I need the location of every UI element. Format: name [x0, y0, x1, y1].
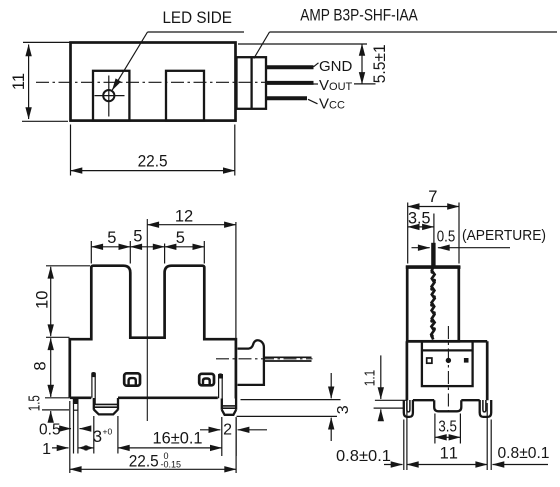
dimension 1.1 upper reference [375, 399, 407, 401]
front view left boss outer [124, 373, 140, 385]
dimension 3 lower arrow [330, 418, 332, 441]
dimension 11 line [28, 45, 30, 120]
dimension 11 top extension [23, 41, 71, 43]
dimension 7 line [408, 206, 459, 208]
front view body outline [70, 266, 236, 399]
front view connector bump [238, 340, 264, 385]
dimension 7 right extension [458, 203, 460, 264]
top view center line [36, 81, 267, 83]
dimension 2 right arrow [238, 429, 267, 431]
dimension 0.5 aperture right arrow [412, 247, 430, 249]
side view center line [447, 326, 449, 412]
side view right foot outer [480, 400, 492, 417]
top view LED circle [103, 90, 114, 101]
dimension 0.5 left arrow [80, 428, 90, 430]
dimension 2 left arrow [200, 429, 220, 431]
dimension 3+0 left extension [93, 416, 95, 454]
front view vertical center line [146, 219, 148, 421]
dimension 10 top extension [46, 265, 90, 267]
side view aperture squiggle [431, 267, 434, 340]
dimension 1.1 lower reference [374, 407, 405, 409]
wire GND tick [314, 63, 319, 67]
dimension 22.5 front left extension [69, 401, 71, 473]
svg-text:12: 12 [175, 208, 193, 226]
svg-text:0.5: 0.5 [39, 422, 61, 439]
LED SIDE leader [112, 32, 147, 90]
dimension 3 upper arrow [330, 373, 332, 398]
dimension 3.5 top line [408, 226, 434, 228]
front view bottom edge left segment [70, 396, 92, 399]
front view right boss outer [199, 374, 214, 386]
front view right snap prong [219, 374, 223, 406]
dimension 3+0 right extension [117, 416, 119, 454]
svg-text:0.8±0.1: 0.8±0.1 [336, 448, 391, 465]
front view wire bottom line [264, 360, 312, 362]
wire VOUT tick [313, 83, 318, 85]
svg-text:22.5: 22.5 [129, 452, 159, 470]
side view aperture squiggle knots [430, 270, 436, 338]
AMP leader [254, 32, 270, 59]
dimension 3 lower reference line [237, 415, 338, 417]
front view left foot left wall [93, 398, 95, 410]
wire VCC tick [308, 99, 318, 104]
side view left foot slot [407, 400, 410, 412]
front view left foot band 1 [94, 403, 118, 405]
svg-text:10: 10 [34, 291, 52, 309]
front view right foot band 1 [222, 405, 236, 407]
dimension 11 left base extension [406, 403, 408, 470]
front view left pin right line [77, 398, 79, 454]
svg-text:-0.15: -0.15 [161, 459, 182, 469]
front view left pin left line [73, 398, 75, 454]
svg-text:8: 8 [32, 361, 50, 370]
side view inner box [422, 341, 473, 386]
dimension 5 line left [91, 246, 130, 248]
AMP underline [270, 31, 558, 33]
dimension 5 extension a [90, 241, 92, 264]
front view right snap prong cap [218, 374, 223, 379]
top view LED crosshair horizontal [95, 95, 125, 97]
dimension 22.5 line [71, 170, 235, 172]
top view LED crosshair vertical [108, 76, 110, 117]
svg-text:3.5: 3.5 [438, 419, 457, 436]
side view right foot slot [483, 400, 486, 412]
front view right foot right wall [235, 399, 237, 410]
side view base bottom left segment [413, 399, 434, 401]
svg-text:1.5: 1.5 [27, 395, 44, 411]
VOUT reference line [354, 83, 376, 85]
svg-text:11: 11 [10, 73, 28, 90]
side view pin dot center [446, 358, 451, 363]
dimension 10 middle extension [46, 336, 70, 338]
front view left snap prong cap [91, 373, 95, 378]
dimension 16±0.1 line [118, 447, 222, 449]
dimension 3.5 bottom right extension [459, 414, 461, 444]
front view bottom edge middle segment [118, 396, 218, 399]
dimension 2 left extension [221, 417, 223, 456]
svg-text:5: 5 [133, 228, 142, 246]
dimension 1.5 lower arrow [50, 411, 52, 421]
svg-text:5: 5 [176, 229, 185, 247]
front view left pin dark body [73, 398, 78, 404]
dimension 22.5 left extension [70, 125, 72, 176]
dimension 7 left extension [407, 203, 409, 264]
dimension 5 extension d [203, 241, 205, 264]
side view pin square right [464, 358, 469, 363]
wire GND [266, 65, 314, 69]
side view inner box lid line [422, 349, 473, 351]
svg-text:5.5±1: 5.5±1 [371, 44, 389, 83]
front view left snap prong [92, 373, 95, 405]
top view LED window (left) [93, 71, 129, 121]
wire VOUT [266, 81, 314, 85]
front view left foot right wall [117, 398, 119, 410]
dimension 5.5±1 extension line [238, 43, 367, 45]
front view left foot band 2 [95, 406, 118, 408]
dimension 11 left foot extension [403, 420, 405, 471]
svg-text:5: 5 [107, 229, 116, 247]
dimension 1.5 lower extension [42, 409, 69, 411]
front view right boss inner [203, 379, 210, 385]
dimension 12 extension [235, 222, 237, 338]
connector housing [237, 57, 267, 109]
dimension 1 arrow [52, 447, 69, 449]
dimension 5 line right [165, 246, 205, 248]
side view tower [407, 267, 459, 342]
dimension 11 right base extension [486, 403, 488, 470]
svg-text:LED SIDE: LED SIDE [162, 9, 232, 27]
side view base outline [407, 341, 487, 400]
dimension 2 right extension [235, 417, 237, 456]
front view left pin bottom cap [74, 409, 78, 411]
dimension 11 right foot extension [490, 420, 492, 471]
dimension 1.1 upper arrow [380, 355, 382, 399]
side view base bottom right segment [461, 399, 479, 401]
front view right foot chamfer [222, 410, 236, 415]
dimension 5 extension b [129, 241, 131, 264]
svg-text:+0: +0 [103, 427, 113, 437]
svg-text:7: 7 [428, 188, 437, 206]
wire VCC [266, 96, 307, 100]
top view detector window (right) [166, 71, 204, 121]
dimension 5.5±1 line [361, 44, 363, 84]
svg-text:3: 3 [93, 428, 102, 446]
dimension 22.5 front right extension [235, 418, 237, 473]
front view right foot left wall [221, 399, 223, 410]
side view aperture bar [431, 243, 435, 267]
dimension 5 line middle [130, 246, 164, 248]
side view bottom tab [434, 400, 461, 411]
dimension 11 bottom extension [22, 120, 68, 122]
LED SIDE underline [148, 31, 245, 33]
connector housing divider [250, 57, 252, 109]
dimension 12 line [147, 224, 236, 226]
dimension 3.5 bottom left extension [434, 414, 436, 444]
side view tower top thick edge [406, 266, 461, 269]
svg-text:3.5: 3.5 [408, 210, 431, 228]
dimension 1/3 double arrow [79, 447, 94, 449]
front view right foot band 2 [222, 407, 236, 409]
svg-text:GND: GND [319, 58, 353, 75]
svg-text:AMP B3P-SHF-IAA: AMP B3P-SHF-IAA [300, 7, 418, 25]
front view left boss inner [129, 378, 136, 385]
dimension 1.1 lower arrow [380, 409, 382, 420]
top view body outline [71, 43, 236, 121]
dimension 11 line [407, 464, 487, 466]
dimension 0.8 right arrow [493, 464, 549, 466]
dimension 3 upper reference line [241, 399, 341, 401]
svg-text:1: 1 [42, 441, 51, 458]
dimension 0.5 right arrow [59, 428, 72, 430]
dimension 22.5 right extension [234, 125, 236, 176]
dimension 22.5 front line [70, 468, 236, 470]
front view left foot chamfer [94, 410, 118, 415]
svg-text:16±0.1: 16±0.1 [153, 430, 203, 448]
dimension 3.5 bottom line [435, 436, 461, 438]
svg-text:(APERTURE): (APERTURE) [462, 228, 546, 244]
dimension 8 line [50, 338, 52, 396]
front view wire center line [216, 358, 313, 360]
dimension 10 line [50, 267, 52, 336]
side view aperture center line [433, 214, 435, 244]
dimension 8 bottom extension [45, 397, 70, 399]
svg-text:2: 2 [223, 422, 232, 439]
side view left foot outer [404, 400, 413, 417]
svg-text:22.5: 22.5 [138, 153, 168, 171]
dimension 0.8 left arrow [384, 464, 403, 466]
svg-text:3: 3 [335, 405, 352, 414]
svg-text:0.5: 0.5 [437, 229, 456, 246]
dimension 5 extension c [164, 244, 166, 264]
svg-text:0.8±0.1: 0.8±0.1 [498, 445, 550, 462]
svg-text:11: 11 [440, 445, 460, 463]
dimension 1.5 upper arrow [50, 388, 52, 397]
front view wire top line [264, 356, 312, 358]
dimension 0.5 aperture left arrow [438, 247, 510, 249]
side view pin square left [427, 358, 432, 363]
svg-text:1.1: 1.1 [362, 370, 379, 387]
